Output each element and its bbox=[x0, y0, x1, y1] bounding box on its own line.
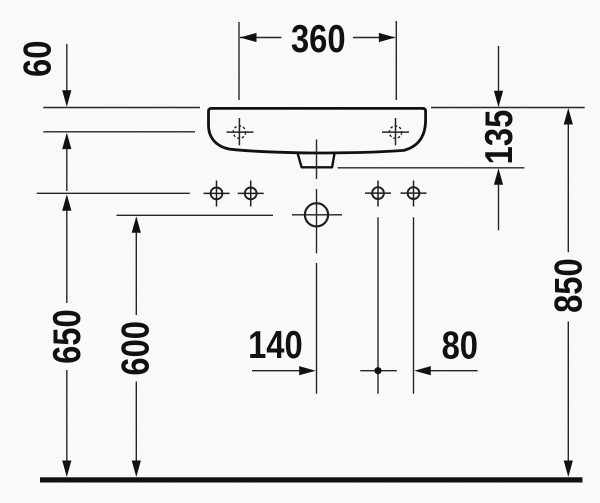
dimension 650: top line (fixing holes level) bbox=[37, 192, 190, 194]
dimension 135: arrows bbox=[494, 46, 503, 230]
dimension 850: label bbox=[546, 258, 590, 313]
fixing hole mid-right bbox=[365, 181, 391, 207]
vertical centre line of basin bbox=[316, 140, 318, 394]
shared junction dot with tick line bbox=[360, 367, 397, 374]
dimension 600: dimension line with arrows bbox=[132, 216, 141, 477]
dimension 80: label bbox=[442, 323, 478, 367]
drain spigot trapezoid bbox=[298, 153, 335, 168]
dimension 360: extension lines bbox=[239, 21, 396, 100]
dimension 360: label bbox=[291, 16, 346, 60]
dimension 60: label bbox=[15, 41, 59, 77]
dimension 60: upper extension line (rim level) bbox=[43, 107, 200, 109]
dimension 135: label bbox=[476, 110, 520, 165]
fixing hole mid-left bbox=[238, 181, 264, 207]
drop line from far-right hole bbox=[413, 217, 415, 393]
dimension 140: label bbox=[248, 322, 303, 366]
dimension 60: arrows bbox=[62, 44, 71, 191]
floor line bbox=[40, 477, 583, 482]
fixing hole far-right bbox=[401, 181, 427, 207]
washbasin outline bbox=[209, 108, 426, 153]
dimension 850: dimension line with arrows bbox=[564, 108, 573, 477]
drop line from mid-right hole bbox=[377, 217, 379, 393]
overflow drain circle bbox=[292, 203, 342, 226]
left tap hole crosshair bbox=[227, 118, 254, 145]
dimension 135: upper line (rim level, right side) bbox=[431, 107, 585, 109]
fixing hole far-left bbox=[204, 181, 230, 207]
dimension 60: lower extension line (tap level) bbox=[43, 131, 195, 133]
dimension 140: dimension line with arrow bbox=[252, 366, 316, 375]
dimension 360: dimension line with arrows bbox=[240, 33, 395, 42]
dimension 135: lower line bbox=[338, 167, 525, 169]
dimension 600: top line (overflow level) bbox=[116, 214, 273, 216]
dimension 600: label bbox=[113, 321, 157, 376]
dimension 80: dimension line with arrow bbox=[414, 366, 477, 375]
dimension 650: label bbox=[44, 309, 88, 364]
right tap hole crosshair bbox=[382, 118, 409, 145]
dimension 650: dimension line with arrows bbox=[62, 194, 71, 477]
